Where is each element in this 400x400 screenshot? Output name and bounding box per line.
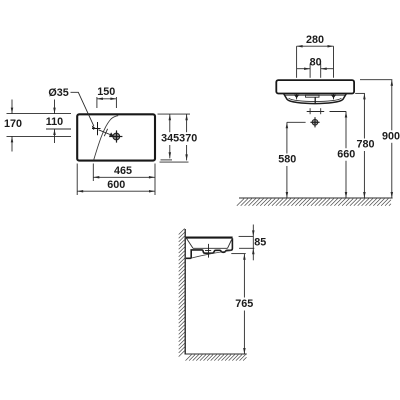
- faucet centre line front: [307, 108, 325, 114]
- ref line 660: [330, 111, 347, 113]
- svg-text:Ø35: Ø35: [48, 87, 68, 99]
- ref line 580: [287, 121, 306, 123]
- svg-text:85: 85: [254, 237, 266, 249]
- centreline cross side: [205, 244, 211, 258]
- bowl outline front: [284, 94, 347, 104]
- svg-text:580: 580: [278, 154, 296, 166]
- dim 780: [363, 93, 365, 198]
- dim 765: [243, 254, 245, 354]
- wall hatch: [179, 229, 185, 357]
- dim 85: [239, 225, 255, 261]
- fixing mark left: [294, 93, 299, 99]
- dim 600: [77, 190, 155, 192]
- wall line: [184, 229, 186, 354]
- ref line 780: [355, 92, 365, 94]
- ext line top edge left: [7, 113, 72, 115]
- ground line right: [239, 197, 393, 199]
- ext line 370 bottom: [160, 161, 189, 163]
- floor hatch side: [186, 355, 247, 361]
- dim 110: [54, 100, 56, 144]
- centre connector line: [99, 129, 113, 136]
- svg-text:780: 780: [356, 139, 374, 151]
- bowl top edge front: [285, 94, 345, 96]
- faucet hole cross: [92, 122, 101, 135]
- svg-text:345370: 345370: [161, 133, 197, 145]
- dim 465: [93, 176, 155, 178]
- ext line 345 bottom: [161, 159, 173, 161]
- bowl inner line front: [289, 98, 342, 101]
- centre line front: [314, 97, 316, 103]
- basin interior side: [187, 238, 232, 248]
- dim 170: [11, 100, 13, 152]
- dim 80: [297, 64, 334, 78]
- ref line 765: [231, 253, 245, 255]
- dim 900: [391, 80, 393, 198]
- dim 280: [297, 46, 334, 78]
- basin back curve side: [191, 251, 232, 259]
- dim 660: [345, 112, 347, 199]
- svg-text:765: 765: [235, 298, 253, 310]
- basin deck curve plan: [94, 116, 119, 161]
- ext line faucet centre: [46, 128, 71, 130]
- basin outline plan: [77, 114, 155, 160]
- ground hatch right: [237, 199, 391, 206]
- ext verticals bottom plan: [77, 164, 155, 196]
- overflow rect front: [306, 95, 320, 97]
- floor line side: [185, 353, 247, 355]
- svg-text:170: 170: [4, 118, 22, 130]
- ext line drain centre: [7, 135, 72, 137]
- ref line 900: [360, 79, 392, 81]
- leader line Ø35: [71, 92, 96, 130]
- svg-text:110: 110: [46, 116, 63, 128]
- fixing mark right: [331, 93, 336, 99]
- dim 345: [169, 114, 171, 158]
- drain symbol plan: [109, 130, 122, 142]
- svg-text:660: 660: [337, 148, 355, 160]
- svg-text:600: 600: [107, 179, 125, 191]
- dim 370: [186, 114, 188, 160]
- svg-text:80: 80: [310, 57, 322, 69]
- drain symbol front: [310, 117, 319, 127]
- basin profile side: [186, 237, 233, 239]
- basin rim front: [276, 80, 354, 93]
- svg-text:150: 150: [97, 86, 115, 98]
- ext line right top: [158, 113, 191, 115]
- svg-text:465: 465: [114, 165, 132, 177]
- dim 580: [286, 122, 288, 198]
- svg-text:900: 900: [382, 131, 400, 143]
- svg-text:280: 280: [306, 34, 324, 46]
- dim 150: [97, 97, 117, 108]
